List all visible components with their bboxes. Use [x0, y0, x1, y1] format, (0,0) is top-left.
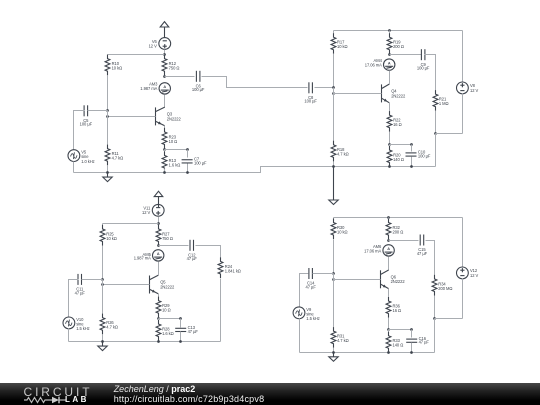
svg-text:10 Ω: 10 Ω [162, 308, 171, 313]
wire [388, 218, 390, 223]
wire C13 top [180, 319, 182, 328]
ammeter AM6 17.06 mA [364, 244, 394, 256]
wire C7 top lead [187, 150, 189, 158]
svg-text:47 µF: 47 µF [419, 340, 430, 345]
junction [332, 86, 335, 89]
resistor R30 10 kΩ [331, 219, 347, 240]
wire base Q4 [334, 93, 382, 95]
wire R17 down [333, 54, 335, 88]
capacitor C13 47 µF [175, 325, 198, 334]
wire V6 to node [164, 50, 166, 55]
wire AM4 to Q4 [389, 71, 391, 85]
junction [106, 115, 109, 118]
wire C11 to V10 [69, 280, 79, 318]
junction [388, 165, 391, 168]
junction [332, 351, 335, 354]
junction [186, 171, 189, 174]
wire to R11 [107, 117, 109, 149]
wire R30 down [333, 240, 335, 274]
svg-text:100 µF: 100 µF [417, 66, 430, 71]
wire base Q6 [334, 279, 381, 281]
svg-text:A: A [163, 85, 166, 89]
junction [387, 239, 390, 242]
svg-text:47 µF: 47 µF [75, 290, 86, 295]
wire [389, 132, 391, 145]
wire R26 to rail [102, 335, 104, 342]
junction [101, 340, 104, 343]
svg-text:16 Ω: 16 Ω [393, 122, 402, 127]
resistor R18 4.7 kΩ [331, 141, 348, 162]
svg-text:2N2222: 2N2222 [391, 279, 406, 284]
wire C16 bottom [411, 343, 413, 353]
wire to R20 [389, 145, 391, 151]
wire R31 to rail [333, 348, 335, 353]
svg-text:1.0 kHz: 1.0 kHz [81, 159, 94, 164]
wire ground rail B [334, 166, 436, 168]
svg-text:2N2222: 2N2222 [167, 116, 182, 121]
wire to R31 [333, 280, 335, 332]
resistor R32 200 Ω [386, 219, 403, 240]
svg-text:1 MΩ: 1 MΩ [439, 101, 449, 106]
wire [158, 341, 160, 342]
wire R24 to rail [220, 279, 222, 342]
resistor R20 140 Ω [387, 146, 404, 167]
ammeter AM3 1.987 mA [140, 82, 170, 95]
ground [98, 342, 107, 351]
svg-text:A: A [388, 61, 391, 65]
svg-text:12 V: 12 V [149, 43, 158, 48]
transistor Q5 2N2222 [150, 275, 175, 294]
resistor R36 16 Ω [386, 297, 401, 318]
wire [102, 224, 104, 229]
wire [388, 240, 390, 241]
wire C15 to R34 [426, 241, 435, 279]
junction [434, 132, 437, 135]
resistor R10 10 kΩ [105, 55, 122, 76]
wire to R18 [333, 94, 335, 145]
wire ground rail D [300, 352, 435, 354]
svg-text:12 V: 12 V [470, 273, 479, 278]
junction [106, 109, 109, 112]
svg-text:750 Ω: 750 Ω [162, 236, 173, 241]
voltage source V6 12 V [149, 38, 171, 50]
wire V12 bottom [462, 279, 464, 319]
svg-text:47 µF: 47 µF [188, 329, 199, 334]
junction [179, 340, 182, 343]
wire base Q5 [103, 284, 150, 286]
resistor R12 750 Ω [162, 55, 179, 76]
wire R11 to ground rail [107, 166, 109, 173]
node [410, 143, 413, 146]
node [410, 328, 413, 331]
resistor R23 10 Ω [162, 128, 177, 149]
wire R25 down [102, 246, 104, 280]
svg-text:1.6 kΩ: 1.6 kΩ [162, 331, 174, 336]
wire V12 top [462, 218, 464, 268]
junction [433, 317, 436, 320]
junction [332, 272, 335, 275]
svg-text:17.06 mA: 17.06 mA [365, 63, 382, 68]
wire supply rail D [334, 217, 463, 219]
transistor Q6 2N2222 [381, 270, 406, 289]
junction [157, 222, 160, 225]
svg-text:2N2222: 2N2222 [391, 93, 406, 98]
wire to rail [435, 134, 437, 167]
junction [388, 29, 391, 32]
wire to R13 [164, 150, 166, 156]
junction [332, 165, 335, 168]
junction [163, 53, 166, 56]
wire R13 to rail [164, 169, 166, 173]
sine source V5 [68, 150, 95, 164]
svg-text:10 kΩ: 10 kΩ [337, 44, 348, 49]
capacitor C10 100 µF [406, 150, 431, 159]
wire V8 top [462, 31, 464, 83]
wire R18 to rail [333, 162, 335, 167]
wire emitter to R22 [389, 103, 391, 116]
wire C10 top [411, 145, 413, 152]
svg-text:47 µF: 47 µF [187, 256, 198, 261]
footer bar [0, 383, 540, 405]
junction [157, 244, 160, 247]
capacitor C11 47 µF [75, 274, 86, 295]
resistor R31 4.7 kΩ [331, 327, 348, 348]
capacitor C7 100 µF [182, 156, 207, 165]
svg-text:4.7 kΩ: 4.7 kΩ [337, 338, 349, 343]
wire [389, 31, 391, 38]
wire to C10 [390, 144, 412, 146]
wire [389, 54, 391, 55]
wire V9 to rail [299, 319, 301, 353]
svg-text:200 Ω: 200 Ω [393, 44, 404, 49]
capacitor C6 100 µF [192, 71, 205, 92]
capacitor C5 100 µF [80, 105, 93, 126]
wire to V8 [436, 133, 463, 135]
voltage source V8 12 V [457, 82, 479, 94]
svg-text:100 µF: 100 µF [418, 154, 431, 159]
node [186, 148, 189, 151]
resistor R26 4.7 kΩ [100, 314, 118, 335]
wire C10 bottom [411, 157, 413, 167]
wire [158, 245, 160, 247]
wire C14 to base node [313, 273, 334, 275]
wire to R28 [158, 319, 160, 325]
wire [333, 31, 335, 38]
wire C9 to R21 [425, 55, 436, 95]
svg-text:1.6 kΩ: 1.6 kΩ [169, 162, 181, 167]
svg-text:4.7 kΩ: 4.7 kΩ [337, 152, 349, 157]
power flag (V+) [154, 191, 163, 207]
wire R21 down [435, 111, 437, 134]
svg-text:1.5 kHz: 1.5 kHz [76, 326, 89, 331]
junction [410, 351, 413, 354]
junction [387, 328, 390, 331]
junction [101, 278, 104, 281]
ammeter AM5 1.987 mA [134, 250, 164, 261]
wire R34 down [434, 296, 436, 319]
wire C5 to base node [88, 110, 108, 112]
svg-text:140 Ω: 140 Ω [393, 343, 404, 348]
svg-text:100 µF: 100 µF [192, 87, 205, 92]
resistor R13 1.6 kΩ [162, 151, 180, 172]
wire base Q3 [108, 116, 156, 118]
transistor Q3 2N2222 [156, 107, 182, 126]
ground [329, 353, 338, 362]
svg-text:2N2222: 2N2222 [160, 284, 175, 289]
wire to R26 [102, 285, 104, 318]
wire C8 to node [315, 87, 334, 89]
capacitor C12 47 µF [187, 240, 198, 261]
wire [333, 274, 335, 280]
wire emitter to R29 [158, 294, 160, 301]
junction [388, 53, 391, 56]
wire C14 to V9 [300, 274, 309, 307]
capacitor C9 100 µF [417, 49, 430, 70]
junction [157, 340, 160, 343]
wire [164, 149, 166, 150]
svg-text:10 kΩ: 10 kΩ [106, 236, 117, 241]
wire to C7 [165, 149, 188, 151]
svg-text:10 kΩ: 10 kΩ [337, 229, 348, 234]
svg-text:10 kΩ: 10 kΩ [112, 66, 123, 71]
junction [388, 143, 391, 146]
wire ground rail C [69, 341, 221, 343]
svg-text:4.7 kΩ: 4.7 kΩ [112, 156, 124, 161]
wire [107, 111, 109, 117]
resistor R11 4.7 kΩ [105, 145, 123, 166]
capacitor C14 47 µF [306, 268, 317, 289]
svg-text:12 V: 12 V [142, 210, 151, 215]
svg-text:140 Ω: 140 Ω [393, 157, 404, 162]
wire [102, 280, 104, 285]
capacitor C15 47 µF [417, 235, 428, 256]
power flag (V+) [160, 22, 169, 38]
sine source V9 [293, 307, 320, 321]
svg-text:12 V: 12 V [470, 88, 479, 93]
svg-text:47 µF: 47 µF [306, 284, 317, 289]
wire C6 to C8 [202, 77, 308, 88]
svg-text:100 µF: 100 µF [80, 122, 93, 127]
junction [163, 148, 166, 151]
resistor R28 1.6 kΩ [156, 320, 174, 341]
ammeter AM4 17.06 mA [365, 58, 395, 70]
wire C12 to R24 [196, 246, 221, 262]
resistor R25 10 kΩ [100, 225, 117, 246]
wire supply rail C [103, 223, 159, 225]
capacitor C16 47 µF [406, 336, 429, 345]
resistor R21 1 MΩ [433, 90, 448, 111]
resistor R27 750 Ω [156, 225, 173, 246]
wire AM5 to Q5 [158, 262, 160, 276]
svg-text:1.987 mA: 1.987 mA [134, 256, 151, 261]
wire to V12 [435, 318, 463, 320]
wire AM6 to Q6 [388, 257, 390, 271]
wire to C13 [159, 318, 181, 320]
resistor R24 1.841 kΩ [218, 257, 241, 278]
wire C16 top [411, 330, 413, 338]
junction [332, 278, 335, 281]
junction [101, 283, 104, 286]
wire to R33 [388, 330, 390, 336]
voltage source V11 12 V [142, 204, 164, 216]
wire emitter to R23 [164, 126, 166, 132]
wire to C12 [159, 245, 189, 247]
node [179, 317, 182, 320]
junction [157, 317, 160, 320]
wire supply rail B [334, 30, 463, 32]
svg-text:200 MΩ: 200 MΩ [438, 286, 452, 291]
wire [388, 318, 390, 330]
junction [332, 92, 335, 95]
wire [164, 76, 166, 77]
wire emitter to R35 [388, 289, 390, 302]
resistor R19 200 Ω [387, 33, 404, 54]
resistor R22 16 Ω [387, 111, 402, 132]
wire [333, 88, 335, 94]
resistor R33 140 Ω [386, 332, 403, 353]
wire to rail [434, 319, 436, 353]
wire C13 bottom [180, 332, 182, 342]
capacitor C8 100 µF [304, 82, 317, 103]
ground [329, 167, 338, 205]
wire C5 to V5 [74, 111, 85, 150]
junction [387, 351, 390, 354]
svg-text:A: A [387, 247, 390, 251]
svg-text:10 Ω: 10 Ω [169, 139, 178, 144]
wire [158, 318, 160, 319]
sine source V10 [63, 317, 90, 331]
voltage source V12 12 V [457, 267, 479, 279]
svg-text:4.7 kΩ: 4.7 kΩ [106, 325, 118, 330]
svg-text:47 µF: 47 µF [417, 251, 428, 256]
junction [163, 75, 166, 78]
wire ground rail A [74, 167, 334, 173]
wire [333, 218, 335, 223]
svg-text:750 Ω: 750 Ω [169, 66, 180, 71]
resistor R29 10 Ω [156, 297, 171, 318]
junction [163, 171, 166, 174]
svg-text:100 µF: 100 µF [194, 160, 207, 165]
svg-text:1.987 mA: 1.987 mA [140, 86, 157, 91]
svg-text:1.5 kHz: 1.5 kHz [306, 316, 319, 321]
junction [410, 165, 413, 168]
svg-text:1.841 kΩ: 1.841 kΩ [225, 268, 241, 273]
svg-text:16 Ω: 16 Ω [393, 308, 402, 313]
wire [107, 55, 109, 59]
wire R10 to base node [107, 76, 109, 111]
wire V5 to rail [73, 162, 75, 173]
svg-text:17.06 mA: 17.06 mA [364, 249, 381, 254]
junction [387, 216, 390, 219]
wire to C16 [389, 329, 412, 331]
wire V8 bottom [462, 94, 464, 134]
wire AM3 to Q3 collector [164, 95, 166, 108]
wire to C9 [390, 54, 422, 56]
svg-text:200 Ω: 200 Ω [393, 229, 404, 234]
wire [158, 217, 160, 224]
wire collector node to C6 [165, 76, 195, 78]
resistor R34 200 MΩ [432, 275, 452, 296]
svg-text:A: A [157, 252, 160, 256]
wire V10 to rail [68, 329, 70, 342]
CircuitLab logo [24, 385, 93, 399]
transistor Q4 2N2222 [382, 84, 406, 103]
svg-text:100 µF: 100 µF [304, 99, 317, 104]
wire C11 to base node [82, 279, 103, 281]
wire C7 bottom lead [187, 164, 189, 173]
wire to C15 [389, 240, 419, 242]
junction [106, 171, 109, 174]
ground [103, 173, 112, 182]
resistor R17 10 kΩ [331, 33, 347, 54]
wire supply rail A [108, 54, 165, 56]
